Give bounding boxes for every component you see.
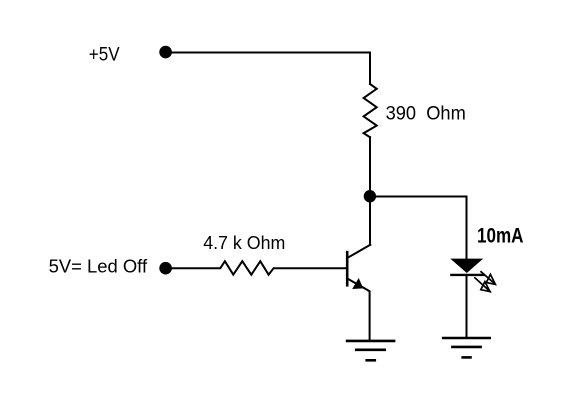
- svg-text:+5V: +5V: [89, 45, 120, 66]
- svg-text:4.7 k Ohm: 4.7 k Ohm: [203, 233, 285, 253]
- svg-text:390 Ohm: 390 Ohm: [386, 104, 466, 125]
- svg-text:10mA: 10mA: [477, 225, 524, 248]
- svg-text:5V= Led Off: 5V= Led Off: [49, 255, 148, 276]
